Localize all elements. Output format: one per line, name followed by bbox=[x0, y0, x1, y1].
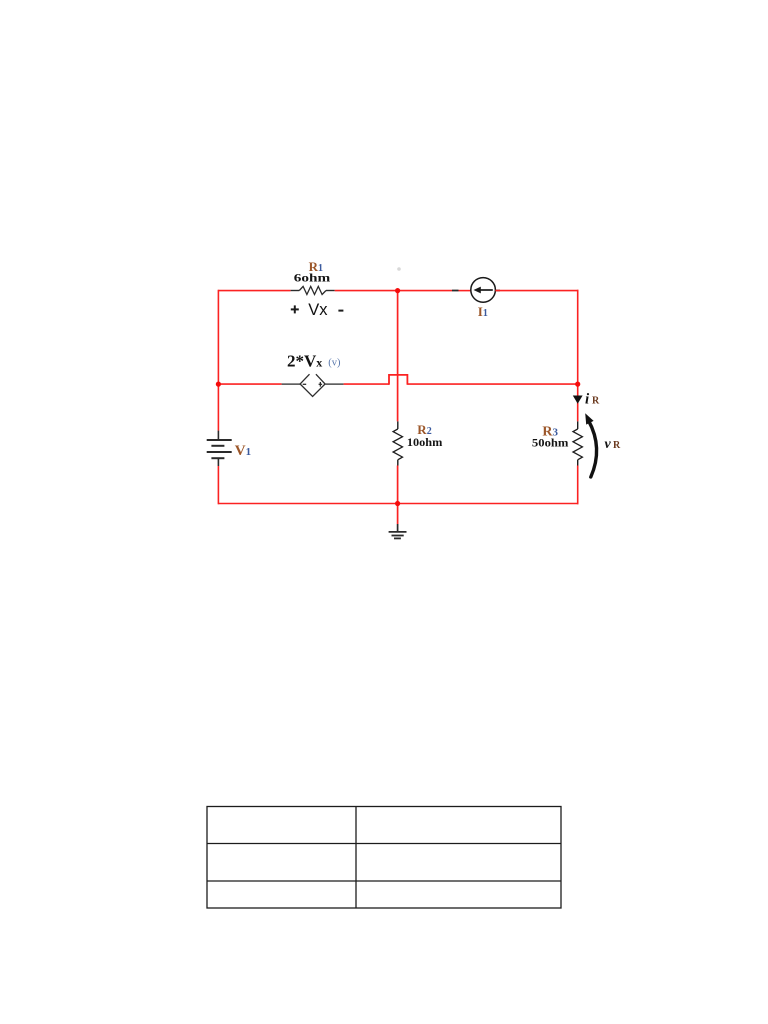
wire bottom bbox=[218, 503, 578, 505]
current source I1 stub left bbox=[452, 290, 459, 292]
wire top-right segment bbox=[495, 290, 578, 292]
wire ground stub bbox=[397, 504, 399, 525]
svg-text:R2: R2 bbox=[417, 422, 431, 437]
artifact dot bbox=[397, 267, 401, 271]
resistor R3 bbox=[573, 421, 582, 465]
wire top-mid segment bbox=[335, 290, 452, 292]
dependent source lead right bbox=[325, 383, 344, 385]
svg-text:6ohm: 6ohm bbox=[294, 271, 331, 285]
ground bbox=[389, 524, 407, 538]
current source I1 stub right bbox=[495, 290, 500, 292]
table bbox=[207, 807, 561, 909]
wire middle horizontal left bbox=[218, 383, 281, 385]
svg-text:i: i bbox=[585, 392, 590, 408]
label + Vx - bbox=[291, 305, 344, 313]
dependent source lead left bbox=[282, 383, 301, 385]
wire at I1 left bbox=[459, 290, 472, 292]
wire left vertical lower bbox=[217, 466, 219, 504]
wire hop over middle vertical bbox=[389, 375, 407, 385]
battery V1 bbox=[207, 431, 232, 466]
wire left vertical upper bbox=[217, 290, 219, 431]
svg-text:Vx: Vx bbox=[308, 301, 328, 319]
wire right vertical lower bbox=[577, 466, 579, 505]
wire middle vertical upper bbox=[397, 290, 399, 422]
junction node right middle bbox=[575, 382, 580, 387]
resistor R1 bbox=[291, 286, 335, 294]
svg-text:V1: V1 bbox=[235, 443, 251, 459]
svg-text:R: R bbox=[613, 440, 621, 451]
resistor R2 bbox=[393, 421, 402, 465]
wire top-left segment bbox=[218, 290, 290, 292]
wire middle horizontal right bbox=[407, 383, 578, 385]
wire middle horizontal mid bbox=[344, 383, 389, 385]
svg-text:50ohm: 50ohm bbox=[532, 438, 569, 450]
arrow vR arc bbox=[589, 421, 597, 478]
current source I1 bbox=[471, 278, 496, 303]
dependent source U1 diamond bbox=[300, 374, 325, 396]
junction node top middle bbox=[395, 288, 400, 293]
junction node bottom middle bbox=[395, 501, 400, 506]
wire middle vertical lower bbox=[397, 466, 399, 505]
svg-text:I1: I1 bbox=[478, 304, 488, 319]
junction node left middle bbox=[216, 382, 221, 387]
svg-text:10ohm: 10ohm bbox=[407, 437, 443, 449]
wire right vertical upper bbox=[577, 290, 579, 422]
svg-text:v: v bbox=[605, 437, 612, 452]
arrow iR bbox=[573, 396, 583, 404]
svg-text:2*Vx(v): 2*Vx(v) bbox=[287, 352, 341, 371]
svg-text:R: R bbox=[592, 396, 600, 407]
